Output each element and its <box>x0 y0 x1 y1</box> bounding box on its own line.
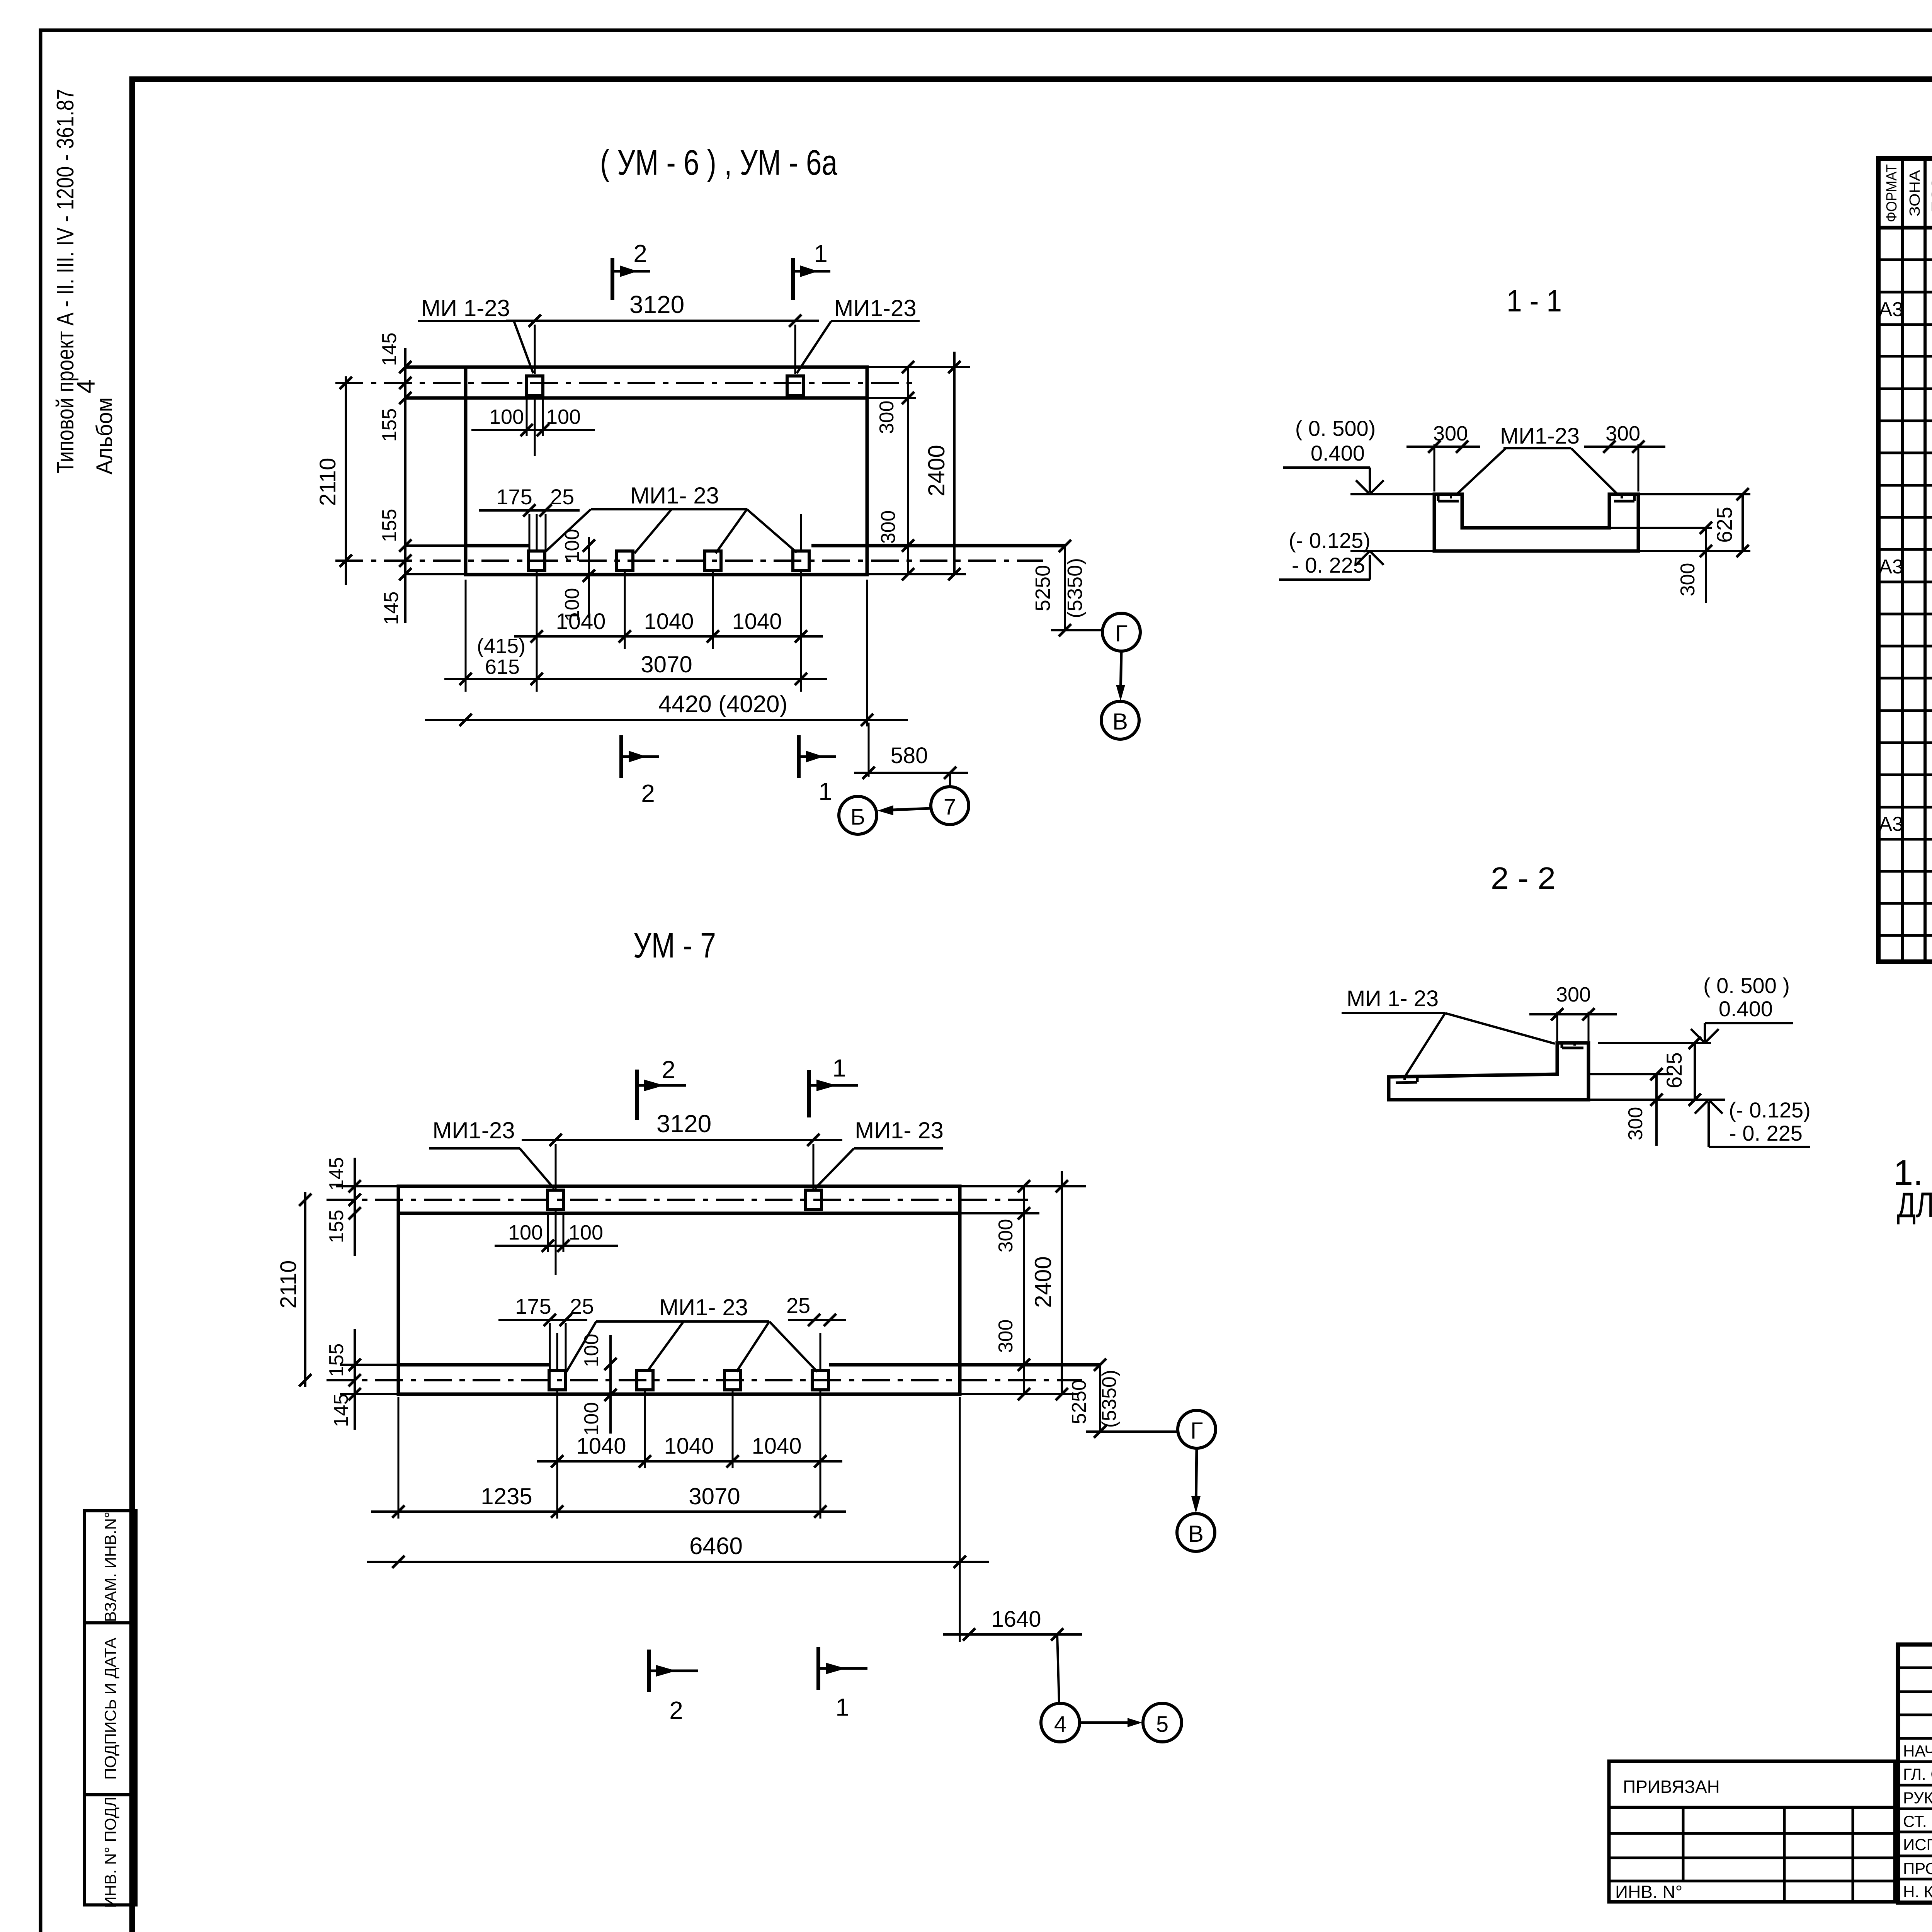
plan UM-7 dim 1040 row <box>537 1434 842 1468</box>
section 2-2 leader MI1-23 <box>1342 986 1555 1075</box>
plan UM-7 dim 2110 <box>276 1192 311 1387</box>
svg-text:5250: 5250 <box>1031 565 1054 611</box>
svg-text:145: 145 <box>378 333 401 366</box>
svg-text:ЗОНА: ЗОНА <box>1907 170 1923 216</box>
left margin stamp: Типовой проект <box>52 89 79 473</box>
title block signature rows <box>1903 1742 1932 1902</box>
plan UM-7 dim 100/100 vertical at plate <box>580 1334 617 1436</box>
plan UM-6 section marker 1 bottom <box>799 735 836 805</box>
left margin box Подпись и дата <box>84 1623 136 1795</box>
svg-text:625: 625 <box>1712 507 1736 543</box>
svg-text:1040: 1040 <box>664 1434 714 1459</box>
svg-text:300: 300 <box>995 1219 1017 1253</box>
section 2-2 slab level line and dim 300 <box>1588 1068 1673 1146</box>
svg-text:100: 100 <box>580 1334 603 1367</box>
svg-text:В: В <box>1112 709 1128 735</box>
plan UM-6 axis circle В <box>1101 701 1139 739</box>
svg-text:( 0. 500 ): ( 0. 500 ) <box>1703 973 1790 998</box>
svg-text:МИ 1- 23: МИ 1- 23 <box>1347 986 1439 1011</box>
section 1-1 leader MI1-23 trapezoid <box>1457 423 1617 494</box>
plan UM-6 dim 100/100 top <box>471 396 595 456</box>
plan UM-6 dim 175/25 <box>479 485 580 552</box>
plan UM-6 label MI1-23 top-right <box>797 295 920 373</box>
svg-text:МИ1-23: МИ1-23 <box>834 295 916 321</box>
svg-text:1040: 1040 <box>556 609 605 634</box>
svg-text:(- 0.125): (- 0.125) <box>1289 528 1371 553</box>
svg-text:ПОЗ.: ПОЗ. <box>1929 174 1932 213</box>
svg-text:3070: 3070 <box>641 651 692 677</box>
privyazan block <box>1609 1761 1895 1902</box>
svg-text:155: 155 <box>378 408 401 442</box>
plan UM-7 bottom embedded plates <box>549 1371 828 1390</box>
plan UM-6 bottom strip edges <box>405 546 1065 574</box>
svg-text:1040: 1040 <box>732 609 782 634</box>
svg-text:300: 300 <box>1433 422 1468 445</box>
svg-text:6460: 6460 <box>689 1533 743 1560</box>
svg-text:100: 100 <box>580 1402 603 1436</box>
plan UM-7 dim 3120 <box>522 1110 842 1189</box>
svg-text:1040: 1040 <box>752 1434 801 1459</box>
plan UM-7 label MI1-23 top-right <box>815 1117 944 1189</box>
svg-text:5250: 5250 <box>1068 1379 1090 1424</box>
svg-text:ДЛЯ: ДЛЯ <box>1897 1185 1932 1225</box>
svg-text:МИ1- 23: МИ1- 23 <box>659 1294 748 1320</box>
plan UM-7 dim 100/100 top <box>495 1210 618 1275</box>
left margin box Взам. инв. № <box>84 1511 136 1623</box>
svg-text:(5350): (5350) <box>1098 1370 1121 1428</box>
section 1-1 embedded plate left <box>1438 494 1459 501</box>
svg-text:Б: Б <box>850 804 865 830</box>
svg-text:УМ - 7: УМ - 7 <box>633 926 716 965</box>
plan UM-7 top wall centerline <box>327 1199 1028 1201</box>
plan UM-7 axis circle 5 <box>1143 1703 1182 1742</box>
svg-text:1: 1 <box>814 240 828 267</box>
svg-text:Г: Г <box>1115 621 1128 646</box>
svg-text:1235: 1235 <box>481 1483 532 1509</box>
plan UM-6 dim 3120 <box>506 291 819 374</box>
svg-text:100: 100 <box>508 1221 543 1244</box>
section 2-2 elevation 0.400 (0.500) <box>1598 973 1793 1043</box>
title block left rows <box>1898 1668 1932 1879</box>
plan UM-7 label MI1-23 top-left <box>429 1117 554 1189</box>
section 1-1 body outline <box>1434 494 1638 551</box>
svg-text:300: 300 <box>1556 983 1591 1006</box>
svg-text:1040: 1040 <box>576 1434 626 1459</box>
svg-text:155: 155 <box>378 509 401 543</box>
svg-text:(415): (415) <box>477 634 526 658</box>
plan UM-6 axis circle Б <box>839 796 877 834</box>
svg-text:4: 4 <box>1054 1712 1066 1737</box>
svg-text:300: 300 <box>1677 563 1699 597</box>
svg-text:ИНВ. N°: ИНВ. N° <box>1615 1882 1682 1902</box>
svg-text:ФОРМАТ: ФОРМАТ <box>1884 164 1900 222</box>
plan UM-6 title <box>600 143 838 182</box>
plan UM-6 dim 2400 <box>923 352 961 580</box>
plan UM-7 arrow 4 to 5 <box>1080 1718 1142 1727</box>
svg-text:145: 145 <box>380 592 403 625</box>
svg-text:2400: 2400 <box>1030 1256 1056 1308</box>
plan UM-7 axis circle Г <box>1178 1410 1216 1448</box>
svg-text:РУК. ГР.: РУК. ГР. <box>1903 1789 1932 1807</box>
section 2-2 body outline <box>1389 1043 1588 1100</box>
svg-text:300: 300 <box>1605 422 1640 445</box>
plan UM-6 embedded plate MI1-23 top-left <box>527 376 543 395</box>
svg-text:580: 580 <box>891 743 928 768</box>
svg-text:300: 300 <box>877 510 900 544</box>
svg-text:ПРОВЕР.: ПРОВЕР. <box>1903 1859 1932 1878</box>
svg-text:300: 300 <box>995 1320 1017 1353</box>
svg-text:2400: 2400 <box>923 445 949 496</box>
section 2-2 embedded plate left <box>1396 1077 1417 1083</box>
plan UM-7 dim 6460 <box>367 1397 989 1642</box>
plan UM-7 section marker 2 top <box>637 1056 686 1120</box>
svg-text:25: 25 <box>550 485 574 509</box>
plan UM-6 top wall centerline <box>335 382 916 384</box>
svg-text:МИ1- 23: МИ1- 23 <box>855 1117 944 1143</box>
plan UM-6 section marker 2 top <box>612 240 650 300</box>
section 2-2 dim 625 <box>1662 1037 1701 1106</box>
svg-text:625: 625 <box>1662 1052 1686 1088</box>
plan UM-6 slab outline <box>466 367 867 575</box>
svg-text:А3: А3 <box>1879 556 1903 578</box>
svg-text:А3: А3 <box>1879 813 1903 835</box>
svg-text:ИСПОЛН.: ИСПОЛН. <box>1903 1835 1932 1854</box>
svg-text:А3: А3 <box>1879 298 1903 321</box>
plan UM-6 dim 615 / 3070 <box>444 580 827 692</box>
svg-text:СТ. ИНЖ.: СТ. ИНЖ. <box>1903 1812 1932 1830</box>
plan UM-7 dim 5250 (5350) <box>1068 1359 1121 1438</box>
svg-text:5: 5 <box>1156 1712 1168 1737</box>
plan UM-6 dim 1040 row <box>514 609 823 643</box>
plan UM-7 slab outline <box>398 1186 960 1394</box>
section 1-1 dim 300 vertical <box>1677 522 1712 603</box>
plan UM-6 label MI 1-23 top-left <box>418 295 533 373</box>
plan UM-6 embedded plate MI1-23 top-right <box>787 376 803 395</box>
svg-text:100: 100 <box>561 529 583 563</box>
svg-text:ПОДПИСЬ И ДАТА: ПОДПИСЬ И ДАТА <box>101 1638 119 1780</box>
section 2-2 bottom level line <box>1588 1099 1725 1101</box>
section 2-2 title <box>1491 861 1556 895</box>
plan UM-6 leader MI1-23 bottom <box>544 483 797 553</box>
plan UM-7 leader MI1-23 bottom <box>566 1294 817 1372</box>
svg-text:3120: 3120 <box>656 1110 711 1138</box>
spec table header texts <box>1884 164 1932 222</box>
plan UM-7 axis line to Г <box>1086 1430 1177 1433</box>
svg-text:1: 1 <box>818 777 832 805</box>
svg-text:ПРИВЯЗАН: ПРИВЯЗАН <box>1623 1777 1720 1797</box>
svg-text:2: 2 <box>641 779 655 807</box>
section 1-1 dim 300 right <box>1584 422 1665 492</box>
plan UM-7 arrow Г to В <box>1191 1449 1201 1513</box>
svg-text:4420 (4020): 4420 (4020) <box>658 691 787 718</box>
plan UM-6 bottom strip centerline <box>335 560 1043 562</box>
svg-text:Альбом: Альбом <box>92 397 117 474</box>
section 1-1 dim 300 left <box>1406 422 1480 492</box>
svg-text:2: 2 <box>669 1696 683 1724</box>
note line 2 <box>1897 1185 1932 1225</box>
svg-text:ИНВ. N° ПОДЛ.: ИНВ. N° ПОДЛ. <box>101 1792 119 1908</box>
svg-text:100: 100 <box>546 405 581 429</box>
svg-text:МИ1- 23: МИ1- 23 <box>630 483 719 509</box>
plan UM-7 right dim chain 300/300 <box>960 1180 1086 1400</box>
spec table rows <box>1879 230 1932 961</box>
note line 1 <box>1893 1153 1932 1192</box>
section 1-1 elevation 0.400 (0.500) <box>1283 416 1434 494</box>
plan UM-6 arrow Г to В <box>1116 651 1125 701</box>
svg-text:НАЧ. ОТД.: НАЧ. ОТД. <box>1903 1742 1932 1760</box>
plan UM-6 axis line to Г <box>1051 629 1102 631</box>
plan UM-7 top wall strip bottom edge <box>398 1212 960 1215</box>
svg-text:155: 155 <box>325 1210 348 1243</box>
plan UM-6 right dim chain 300/300 <box>867 361 970 580</box>
svg-text:300: 300 <box>1624 1107 1647 1141</box>
svg-text:155: 155 <box>325 1344 348 1377</box>
svg-text:615: 615 <box>485 655 520 679</box>
section 1-1 embedded plate right <box>1614 494 1634 501</box>
section 2-2 embedded plate on step <box>1562 1043 1583 1048</box>
svg-text:( 0. 500): ( 0. 500) <box>1295 416 1376 440</box>
plan UM-7 plate extension lines <box>557 1333 820 1519</box>
section 1-1 right level lines <box>1609 494 1750 551</box>
svg-text:1040: 1040 <box>644 609 694 634</box>
left margin box Инв. № подл. <box>84 1792 136 1908</box>
svg-text:Типовой проект А - II. III.: Типовой проект А - II. III. IV - 1200 - … <box>52 89 79 473</box>
svg-text:100: 100 <box>568 1221 603 1244</box>
plan UM-6 left dim chain 145/155 <box>378 333 412 625</box>
plan UM-7 embedded plate top-right <box>805 1190 821 1209</box>
title block outer <box>1898 1645 1932 1903</box>
plan UM-7 section marker 1 top <box>809 1054 858 1117</box>
svg-text:1640: 1640 <box>991 1607 1041 1632</box>
svg-text:300: 300 <box>876 401 898 434</box>
svg-text:145: 145 <box>325 1157 348 1191</box>
svg-text:МИ1-23: МИ1-23 <box>432 1117 515 1143</box>
svg-text:ВЗАМ. ИНВ.N°: ВЗАМ. ИНВ.N° <box>101 1512 119 1622</box>
plan UM-7 dim 1640 <box>943 1607 1082 1702</box>
plan UM-7 axis circle В <box>1177 1514 1215 1551</box>
section 1-1 elevation -0.225 (-0.125) <box>1279 528 1434 580</box>
plan UM-6 dim 580 <box>854 723 968 787</box>
svg-text:В: В <box>1188 1521 1204 1547</box>
svg-text:100: 100 <box>489 405 524 429</box>
plan UM-7 bottom strip edges <box>340 1365 1100 1394</box>
plan UM-7 section marker 2 bottom <box>649 1650 698 1724</box>
plan UM-6 dim 4420 (4020) <box>425 580 908 726</box>
svg-text:3120: 3120 <box>629 291 684 318</box>
plan UM-7 embedded plate top-left <box>548 1190 564 1209</box>
svg-text:175: 175 <box>515 1294 551 1318</box>
svg-text:1: 1 <box>835 1693 849 1721</box>
plan UM-6 axis circle 7 <box>931 787 969 825</box>
plan UM-7 bottom strip centerline <box>327 1379 1082 1381</box>
svg-text:- 0. 225: - 0. 225 <box>1292 553 1365 577</box>
plan UM-6 section marker 1 top <box>793 240 830 300</box>
plan UM-6 dim 100/100 vertical at plate <box>561 529 595 622</box>
svg-text:25: 25 <box>570 1294 594 1318</box>
svg-text:2 - 2: 2 - 2 <box>1491 861 1556 895</box>
svg-text:Н. КОНТР.: Н. КОНТР. <box>1903 1883 1932 1901</box>
svg-text:2: 2 <box>662 1056 675 1083</box>
svg-text:2110: 2110 <box>276 1260 301 1309</box>
plan UM-6 plate extension lines <box>537 514 801 692</box>
svg-text:145: 145 <box>330 1394 352 1427</box>
plan UM-7 left dim chain 145/155 top <box>325 1157 398 1256</box>
svg-text:ГЛ. СПЕЦ.: ГЛ. СПЕЦ. <box>1903 1765 1932 1783</box>
left margin stamp: Альбом 4 <box>71 379 117 474</box>
svg-text:Г: Г <box>1190 1418 1203 1444</box>
plan UM-7 section marker 1 bottom <box>818 1647 867 1721</box>
plan UM-7 axis circle 4 <box>1041 1703 1080 1742</box>
svg-text:(5350): (5350) <box>1063 558 1087 618</box>
plan UM-6 axis circle Г <box>1102 613 1140 651</box>
svg-text:7: 7 <box>944 794 956 820</box>
svg-text:2: 2 <box>633 240 647 267</box>
svg-text:( УМ - 6 ) , УМ - 6а: ( УМ - 6 ) , УМ - 6а <box>600 143 838 182</box>
spec table grid <box>1878 158 1932 962</box>
section 2-2 elevation -0.225 (-0.125) <box>1695 1098 1811 1147</box>
svg-text:0.400: 0.400 <box>1311 441 1365 465</box>
svg-text:1 - 1: 1 - 1 <box>1507 284 1562 318</box>
svg-text:4: 4 <box>71 379 100 394</box>
plan UM-6 section marker 2 bottom <box>621 735 659 807</box>
svg-text:- 0. 225: - 0. 225 <box>1729 1121 1803 1145</box>
svg-text:3070: 3070 <box>689 1483 740 1509</box>
plan UM-7 left dim chain 155/145 bottom <box>325 1329 361 1430</box>
plan UM-7 dim 175/25 <box>498 1294 594 1371</box>
svg-text:(- 0.125): (- 0.125) <box>1729 1098 1811 1122</box>
svg-text:1: 1 <box>832 1054 846 1082</box>
svg-text:МИ 1-23: МИ 1-23 <box>421 295 510 321</box>
svg-text:МИ1-23: МИ1-23 <box>1500 423 1580 449</box>
section 1-1 dim 625 <box>1712 488 1749 557</box>
plan UM-7 dim 25 right <box>786 1293 846 1326</box>
plan UM-6 dim 2110 <box>315 376 352 585</box>
section 2-2 dim 300 top <box>1529 983 1617 1041</box>
svg-text:0.400: 0.400 <box>1719 997 1773 1021</box>
plan UM-7 title <box>633 926 716 965</box>
plan UM-7 dim 1235 / 3070 <box>371 1397 846 1519</box>
section 1-1 title <box>1507 284 1562 318</box>
plan UM-6 top wall strip <box>405 367 867 398</box>
plan UM-6 arrow 7 to Б <box>878 805 931 815</box>
svg-text:175: 175 <box>496 485 532 509</box>
svg-text:2110: 2110 <box>315 458 340 506</box>
plan UM-6 dim 5250 (5350) <box>1031 540 1087 636</box>
svg-text:25: 25 <box>786 1293 810 1318</box>
plan UM-6 bottom embedded plates MI1-23 <box>529 551 809 570</box>
plan UM-7 dim 2400 <box>1030 1171 1068 1400</box>
